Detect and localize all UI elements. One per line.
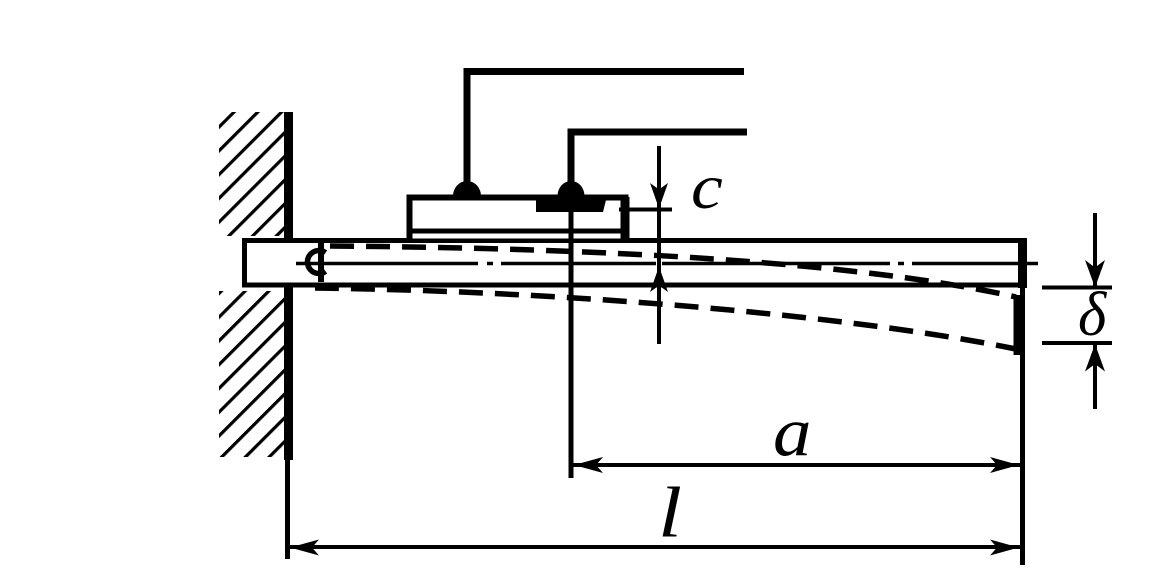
sensor block: [407, 197, 627, 239]
wire 1: [453, 72, 744, 197]
wall hatching: [219, 112, 285, 457]
svg-text:δ: δ: [1078, 280, 1108, 349]
a dimension extension line (through sensor down to dimension): [569, 195, 574, 478]
beam right edge (thick): [1018, 238, 1027, 288]
dimension delta: [1042, 213, 1112, 409]
dimension l: [289, 540, 1020, 556]
deflected beam tip (solid): [1014, 295, 1023, 355]
dimension c: [619, 146, 672, 344]
wire 2: [558, 132, 748, 196]
centerline symbol (cent-like mark): [307, 241, 325, 282]
svg-text:l: l: [658, 473, 682, 553]
svg-text:a: a: [773, 393, 812, 471]
dimension a: [573, 288, 1023, 565]
wall face line: [284, 112, 293, 460]
wall face extension line (l dimension left extension): [285, 455, 290, 559]
deflected beam bottom (dashed): [315, 288, 1016, 349]
beam: [245, 241, 1023, 286]
sensor element (black): [536, 196, 607, 212]
svg-text:c: c: [691, 151, 723, 223]
beam centerline (dash-dot): [296, 262, 1038, 266]
deflected beam top (dashed): [330, 246, 1016, 297]
